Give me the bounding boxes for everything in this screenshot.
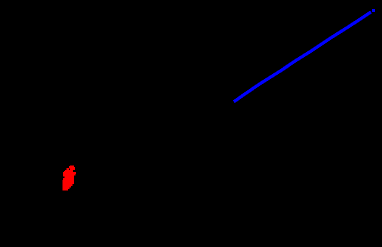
red scribble blob: [62, 166, 76, 191]
blue end dot: [372, 9, 375, 12]
black hole inside red blob: [69, 168, 70, 170]
blue freehand line stroke: [234, 12, 371, 102]
